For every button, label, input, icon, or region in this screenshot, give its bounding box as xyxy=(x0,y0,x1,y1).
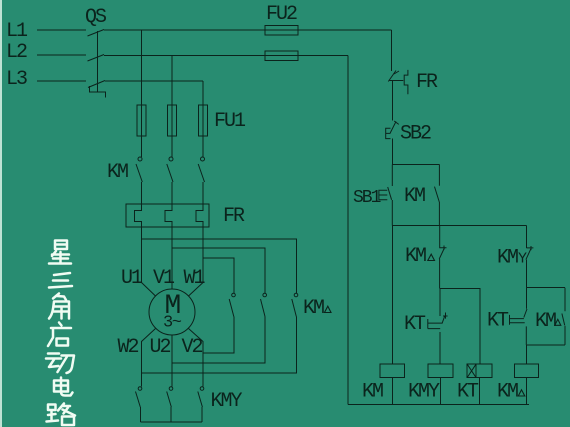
switch QS pole 3 blade xyxy=(88,81,105,88)
button SB2 NC stop xyxy=(386,121,399,139)
svg-text:KT: KT xyxy=(404,313,426,336)
wire to KM coil xyxy=(391,226,393,365)
wire V2 from motor xyxy=(189,329,204,387)
wire W2 from motor xyxy=(142,329,156,387)
wire delta pole1 to V2 node xyxy=(203,317,234,354)
wire FR to SB2 xyxy=(391,81,393,121)
wire delta pole3 to W2 node xyxy=(142,317,297,374)
svg-text:W1: W1 xyxy=(184,267,206,290)
wire branch phase1 to delta contact xyxy=(142,239,297,293)
svg-text:KM: KM xyxy=(497,381,518,404)
fuse FU2-2 body xyxy=(265,51,298,61)
wire junction to self-hold branch xyxy=(527,287,566,289)
svg-text:KM: KM xyxy=(497,247,518,270)
FR heater element 2 with wire xyxy=(165,204,172,248)
contactor KM main pole 1 xyxy=(136,157,142,182)
label KM-delta power xyxy=(303,297,331,320)
svg-text:KM: KM xyxy=(405,245,426,268)
svg-text:SB2: SB2 xyxy=(400,123,431,146)
hanzi 路 xyxy=(47,404,76,426)
switch QS handle hook xyxy=(90,86,106,98)
wire star pole bottoms xyxy=(141,407,203,422)
wire branch phase2 to delta contact xyxy=(172,248,265,293)
contact KT NO delayed closing xyxy=(510,288,528,345)
FR heater element 1 with wire xyxy=(134,204,141,239)
svg-text:KMY: KMY xyxy=(211,390,243,413)
wire coil bottoms to rail xyxy=(393,378,527,405)
svg-text:SB1: SB1 xyxy=(353,188,381,208)
svg-text:V1: V1 xyxy=(153,267,175,290)
contactor KM-delta power pole 3 xyxy=(292,293,298,316)
fuse FU1-3 body xyxy=(199,105,208,136)
svg-text:KMY: KMY xyxy=(408,381,440,404)
relay FR NC contact xyxy=(388,70,408,94)
svg-text:Y: Y xyxy=(518,251,527,268)
coil KM xyxy=(380,364,404,377)
label coil KM-delta xyxy=(497,381,525,404)
contactor KMY star pole 1 xyxy=(136,387,142,407)
svg-text:KM: KM xyxy=(107,161,128,184)
contactor KMY star pole 3 xyxy=(198,387,204,407)
button SB1 NO start xyxy=(379,165,392,226)
contactor KM main pole 2 xyxy=(167,157,173,182)
wire V1 into motor xyxy=(171,248,173,290)
svg-text:U2: U2 xyxy=(150,336,171,359)
coil KMY xyxy=(428,364,453,377)
fuse FU1-1 body xyxy=(137,105,146,136)
wire junction to KT coil xyxy=(440,288,480,364)
wire SB2 to junction xyxy=(391,139,393,165)
svg-text:FU2: FU2 xyxy=(266,3,297,26)
wire junction to KM aux branch xyxy=(392,164,439,166)
switch QS pole 1 blade xyxy=(88,30,105,37)
svg-text:KM: KM xyxy=(303,297,324,320)
contactor KM-delta power pole 1 xyxy=(229,293,235,316)
svg-text:KT: KT xyxy=(487,310,509,333)
contact KMY NC interlock xyxy=(526,226,534,288)
label KM-delta self-hold xyxy=(535,310,561,333)
wire U1 into motor xyxy=(142,239,156,296)
svg-text:W2: W2 xyxy=(118,336,139,359)
contactor KM-delta power pole 2 xyxy=(261,293,267,316)
svg-text:QS: QS xyxy=(85,6,107,29)
contact KM-delta NO self-hold xyxy=(562,288,565,345)
wire L2 incoming xyxy=(37,54,86,56)
svg-text:L1: L1 xyxy=(6,20,28,43)
hanzi 星 xyxy=(49,241,71,264)
wire L1 incoming xyxy=(37,29,86,31)
star point shorting bar xyxy=(141,421,203,423)
left edge light strip xyxy=(0,0,2,427)
wire phase2 drop to KM contact xyxy=(171,55,173,157)
wire from FU2-1 down xyxy=(391,30,393,71)
hanzi 三 xyxy=(49,273,72,288)
wire W1 into motor xyxy=(189,258,204,296)
switch QS linkage bar xyxy=(97,31,99,92)
label KMY interlock xyxy=(497,247,527,270)
contactor KMY star pole 2 xyxy=(167,387,173,407)
svg-text:L2: L2 xyxy=(6,41,27,64)
svg-text:KM: KM xyxy=(535,310,556,333)
contact KM self-hold NO xyxy=(435,165,440,226)
wire delta pole2 to U2 node xyxy=(172,317,265,364)
hanzi 动 xyxy=(46,354,74,374)
wire U2 from motor xyxy=(171,335,173,387)
svg-text:KT: KT xyxy=(457,381,479,404)
wire L3 to phase3 drop xyxy=(105,80,203,82)
FR heater element 3 with wire xyxy=(196,204,203,258)
thermal overload FR box xyxy=(126,204,209,227)
svg-text:V2: V2 xyxy=(182,336,203,359)
contact KM-delta NC interlock xyxy=(439,226,446,289)
control left rail xyxy=(347,56,349,405)
control bottom rail xyxy=(348,404,529,406)
hanzi 启 xyxy=(48,323,71,347)
svg-text:3~: 3~ xyxy=(163,314,182,333)
wire L3 incoming xyxy=(37,80,86,82)
wire junction row y225 xyxy=(392,225,526,227)
wire phase3 KM to FR xyxy=(202,182,204,204)
svg-text:FU1: FU1 xyxy=(214,110,246,133)
svg-text:L3: L3 xyxy=(6,68,27,91)
motor M 3~ circle xyxy=(149,289,195,335)
coil KT with time box xyxy=(467,364,492,377)
svg-text:U1: U1 xyxy=(121,267,143,290)
hanzi 角 xyxy=(49,294,69,319)
coil KM-delta xyxy=(514,364,538,377)
fuse FU2-1 body xyxy=(265,26,298,36)
wire L1 to FU2-1 xyxy=(104,29,392,31)
wire L2 to FU2-2 xyxy=(104,55,348,57)
svg-text:KM: KM xyxy=(362,381,383,404)
svg-text:FR: FR xyxy=(223,205,245,228)
hanzi 电 xyxy=(54,378,73,396)
wire phase3 drop to KM contact xyxy=(202,81,204,157)
svg-text:KM: KM xyxy=(404,185,425,208)
wire phase1 KM to FR xyxy=(141,182,143,204)
switch QS pole 2 blade xyxy=(88,55,105,62)
wire branch phase3 to delta contact xyxy=(203,258,234,293)
label KM-delta interlock xyxy=(405,245,435,268)
wire phase2 KM to FR xyxy=(171,182,173,204)
svg-text:FR: FR xyxy=(416,71,438,94)
fuse FU1-2 body xyxy=(168,105,177,136)
wire phase1 drop to KM contact xyxy=(141,30,143,157)
wire self-hold bottom xyxy=(527,345,566,364)
contactor KM main pole 3 xyxy=(198,157,204,182)
contact KT NC delayed opening xyxy=(428,288,448,364)
title 星三角启动电路 vertical white text xyxy=(46,241,75,426)
